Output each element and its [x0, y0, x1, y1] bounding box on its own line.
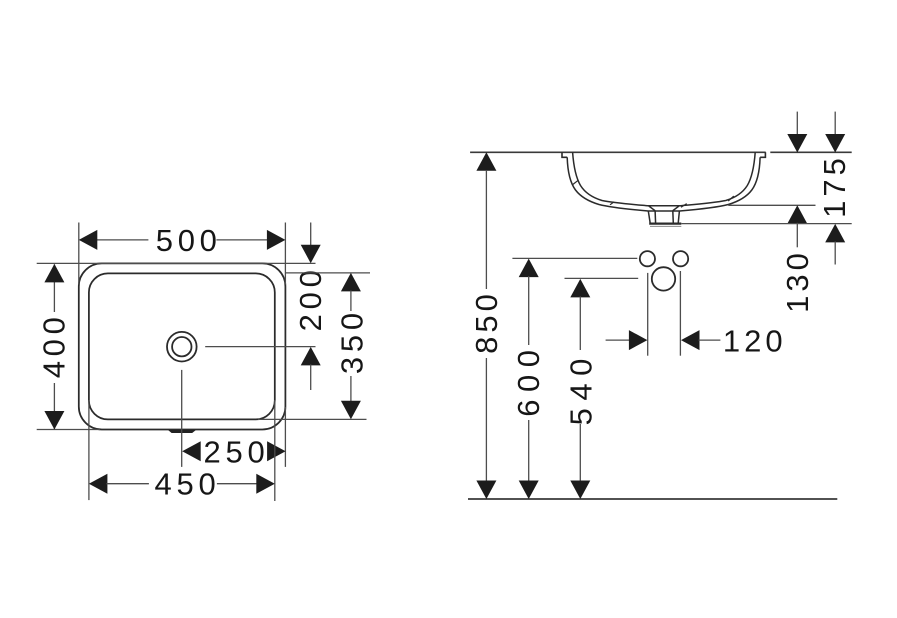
dimension 175: bottom stem [834, 241, 836, 264]
drain trap left leg inner [654, 211, 657, 224]
dimension 250: left arrow [182, 441, 201, 461]
basin section: left rim lip [562, 152, 567, 157]
dimension 850: stems [485, 170, 487, 289]
dimension 400: bottom arrow [44, 411, 64, 430]
svg-text:450: 450 [155, 467, 221, 502]
dimension 450: extension line right (inner edge, through corner) [274, 400, 276, 501]
dimension 350: stems [350, 290, 352, 311]
dimension 130: bottom arrow (up at bowl bottom leader) [787, 205, 807, 224]
dimension 540: bottom arrow [570, 481, 590, 500]
dimension 450: extension line left (inner edge, through corner) [88, 400, 90, 500]
drain trap right leg inner [672, 211, 675, 224]
dimension 600: top arrow [519, 259, 539, 278]
svg-text:130: 130 [780, 249, 815, 313]
drain trap right leg outer [678, 211, 679, 223]
basin section: interior surface (continuous across drain) [573, 152, 756, 206]
svg-text:120: 120 [723, 324, 787, 359]
dimension 500: right arrow [267, 230, 286, 250]
dimension 120: right stem [699, 339, 721, 341]
dimension 130: top stem [796, 112, 798, 137]
faucet hole small left [640, 251, 655, 266]
basin section: wall joint tick left upper [573, 181, 578, 185]
drain inner circle [172, 337, 191, 356]
dimension 175: top stem [834, 112, 836, 137]
dimension 250: extension line right (outer rim, through bottom corner) [284, 407, 286, 467]
basin inner bowl edge (rounded rect) [89, 273, 275, 419]
faucet hole small right [673, 251, 688, 266]
leader line for 600 (small holes level) [512, 257, 637, 259]
leader line for 540 (large hole level) [565, 277, 639, 279]
basin section: right rim lip [760, 152, 765, 157]
dimension 400: extension line bottom (through bottom-left corner) [37, 429, 100, 431]
basin section: wall joint tick right lower [681, 204, 687, 208]
dimension 350: extension line bottom [258, 418, 367, 420]
dimension 175: bottom arrow (up at trap bottom leader) [825, 224, 845, 243]
counter top line [470, 151, 766, 153]
dimension 120: extension line right [679, 271, 681, 356]
leader line bowl bottom level [728, 204, 815, 206]
svg-text:400: 400 [37, 312, 72, 378]
svg-text:250: 250 [204, 434, 270, 469]
basin section: exterior surface (continuous across drain) [567, 157, 760, 211]
dimension 600: bottom arrow [519, 481, 539, 500]
dimension 400: extension line top (runs through both top corners to the 200 dim) [37, 262, 316, 264]
dimension 850: top arrow (up, at counter line) [476, 152, 496, 171]
dimension 200: bottom stem [310, 364, 312, 390]
basin outer rim (rounded rect) [79, 263, 286, 429]
dimension 500: extension line right (passes through rim corner) [284, 223, 286, 285]
drain funnel right slant [673, 206, 679, 211]
dimension 400: dimension line [53, 264, 55, 312]
drain trap bottom [649, 223, 681, 225]
svg-text:850: 850 [469, 290, 504, 354]
dimension 200: top stem [310, 223, 312, 247]
dimension 500: dimension line [97, 239, 148, 241]
drain trap left leg outer [648, 211, 650, 223]
drain trap bottom lower faint line [650, 225, 681, 227]
dimension 120: left arrow (pointing right) [629, 330, 648, 350]
svg-text:200: 200 [293, 265, 328, 331]
dimension 600: stems [528, 276, 530, 345]
svg-text:500: 500 [156, 223, 222, 258]
basin section: wall joint tick right upper [728, 196, 734, 201]
faucet hole large centre [652, 267, 675, 290]
dimension 400: top arrow [44, 264, 64, 283]
dimension 200: bottom arrow (pointing up at drain center line) [301, 347, 321, 366]
dimension 120: left stem [606, 339, 631, 341]
leader line trap bottom level [681, 223, 851, 225]
dimension 540: stems [579, 296, 581, 350]
svg-text:600: 600 [511, 342, 546, 416]
dimension 350: top arrow [341, 273, 361, 292]
floor line [468, 498, 837, 500]
dimension 850: bottom arrow (down, at floor line) [476, 481, 496, 500]
svg-text:350: 350 [334, 308, 369, 374]
dimension 130: bottom stem [796, 223, 798, 248]
dimension 450: left arrow [89, 474, 108, 494]
dimension 250: extension line (drain centre) [181, 370, 183, 467]
dimension 500: extension line left (passes through rim corner) [78, 223, 80, 285]
dimension 540: top arrow [570, 279, 590, 298]
dimension 350: extension line top [285, 272, 370, 274]
dimension 500: left arrow [79, 230, 98, 250]
dimension 200: leader line from drain [205, 346, 315, 348]
dimension 120: extension line left [647, 273, 649, 356]
dimension 200: top arrow (pointing down at rim top edge) [301, 245, 321, 264]
drain outer circle [167, 332, 197, 362]
dimension 175: top arrow (down at counter line) [825, 134, 845, 153]
overflow slot mark (bottom center of rim) [168, 430, 196, 433]
dimension 250: right arrow [267, 441, 286, 461]
svg-text:175: 175 [817, 154, 852, 218]
drain funnel left slant [649, 206, 655, 211]
dimension 450: right arrow [256, 474, 275, 494]
dimension 120: right arrow (pointing left) [681, 330, 700, 350]
dimension 450: stems [106, 483, 148, 485]
svg-text:540: 540 [563, 351, 598, 425]
dimension 130: top arrow (down at counter line) [787, 134, 807, 153]
basin section: wall joint tick left lower [610, 202, 614, 205]
dimension 350: bottom arrow [341, 401, 361, 420]
